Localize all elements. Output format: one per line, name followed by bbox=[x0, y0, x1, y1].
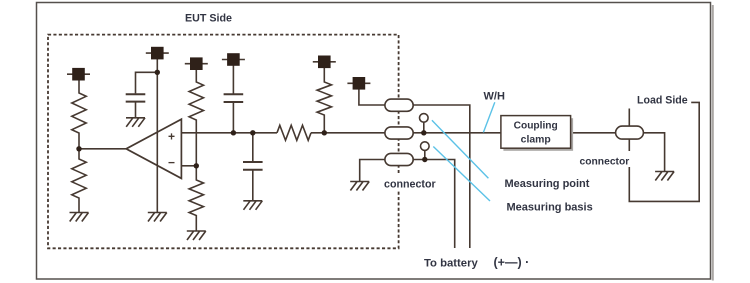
wire connector P3 right lead down to battery bbox=[413, 160, 455, 249]
op-amp U1 bbox=[126, 119, 181, 178]
coupling clamp box bbox=[501, 116, 571, 149]
junction node - input bbox=[194, 163, 199, 168]
wire node A to C1 branch bbox=[136, 72, 158, 93]
ground G1 (below R2) bbox=[70, 213, 89, 222]
wire measuring basis stub bbox=[424, 150, 426, 160]
ground G2 (below C1) bbox=[126, 118, 145, 127]
resistor R5 (from S5 to main wire) bbox=[317, 68, 331, 133]
ground G4 (below R4) bbox=[187, 231, 206, 240]
wire main signal (+) op-amp to R7 bbox=[181, 132, 277, 134]
junction R5/main wire bbox=[322, 130, 327, 135]
ground G7 (load side) bbox=[655, 172, 674, 181]
svg-text:W/H: W/H bbox=[484, 91, 505, 103]
junction C3/main wire bbox=[250, 130, 255, 135]
capacitor C1 (node A to ground) bbox=[126, 93, 146, 117]
svg-text:+: + bbox=[168, 130, 175, 144]
terminal S4 bbox=[222, 54, 245, 66]
connector pin P3 (EUT, bottom) bbox=[385, 153, 413, 165]
measuring point terminal circle bbox=[420, 114, 429, 123]
wire main signal R7 to connector bbox=[311, 132, 386, 134]
svg-text:Measuring point: Measuring point bbox=[505, 178, 590, 190]
svg-text:To battery: To battery bbox=[424, 258, 478, 270]
resistor R3 (from S3 to - node) bbox=[189, 69, 203, 165]
coupling clamp box shadow bbox=[503, 118, 573, 151]
svg-text:connector: connector bbox=[580, 157, 630, 168]
junction C2/main wire bbox=[231, 130, 236, 135]
label connector (EUT) background bbox=[382, 173, 439, 190]
svg-text:Measuring basis: Measuring basis bbox=[507, 202, 593, 214]
svg-text:connector: connector bbox=[384, 179, 436, 191]
outer frame shadow bbox=[712, 5, 714, 281]
junction measuring basis bbox=[422, 157, 427, 162]
junction measuring point bbox=[421, 130, 426, 135]
terminal S1 bbox=[67, 68, 90, 80]
connector pin P2 (EUT, middle) bbox=[385, 127, 413, 139]
wire connector P3 left lead to ground bbox=[360, 160, 386, 182]
ground G3 (op-amp supply) bbox=[148, 213, 167, 222]
wire connector P2 right lead to coupling clamp bbox=[413, 132, 501, 134]
resistor R2 (lower left divider) bbox=[72, 149, 86, 213]
resistor R6 (series, horizontal on main wire) bbox=[277, 125, 311, 140]
junction node A bbox=[155, 70, 160, 75]
resistor R1 (upper left divider) bbox=[72, 80, 86, 149]
ground G6 (EUT connector shield) bbox=[350, 182, 369, 191]
callout line to Measuring basis bbox=[433, 147, 490, 202]
resistor R4 (- node to ground) bbox=[189, 166, 203, 231]
ground G5 (below C3) bbox=[243, 201, 262, 210]
connector P4 (load side) bbox=[616, 126, 644, 139]
wire coupling clamp to load connector bbox=[571, 132, 616, 134]
svg-text:Coupling: Coupling bbox=[514, 121, 558, 132]
capacitor C2 (S4 to main wire) bbox=[224, 65, 244, 133]
wire connector P1 left lead from S6 bbox=[359, 89, 386, 105]
wire op-amp output to divider node bbox=[79, 148, 126, 150]
connector pin P1 (EUT, top) bbox=[385, 99, 413, 111]
wire op-amp (-) input stub bbox=[181, 165, 196, 167]
callout line to Measuring point bbox=[432, 120, 489, 178]
measuring basis terminal circle bbox=[421, 142, 430, 151]
terminal S2 bbox=[146, 47, 169, 59]
terminal S6 bbox=[347, 78, 370, 90]
capacitor C3 (main wire to ground) bbox=[243, 133, 263, 201]
wire measuring point stub bbox=[423, 122, 425, 133]
svg-text:EUT Side: EUT Side bbox=[185, 13, 232, 25]
junction node left divider bbox=[76, 146, 81, 151]
wire op-amp supply rail through body to ground bbox=[156, 59, 158, 213]
terminal S3 bbox=[185, 58, 208, 70]
wire load connector to ground bbox=[643, 133, 664, 172]
EUT dashed boundary box bbox=[48, 35, 399, 249]
label connector (load side) background bbox=[578, 151, 634, 167]
wire load connector top stub bbox=[628, 109, 630, 127]
wire load side loop bbox=[629, 102, 699, 201]
svg-text:(+—) ·: (+—) · bbox=[494, 256, 530, 270]
svg-text:clamp: clamp bbox=[521, 135, 551, 146]
terminal S5 bbox=[313, 56, 336, 68]
wire connector P1 right lead W/H down to battery bbox=[413, 105, 470, 248]
svg-text:Load Side: Load Side bbox=[637, 95, 688, 107]
svg-text:−: − bbox=[168, 156, 175, 170]
callout line to W/H bbox=[483, 102, 494, 132]
